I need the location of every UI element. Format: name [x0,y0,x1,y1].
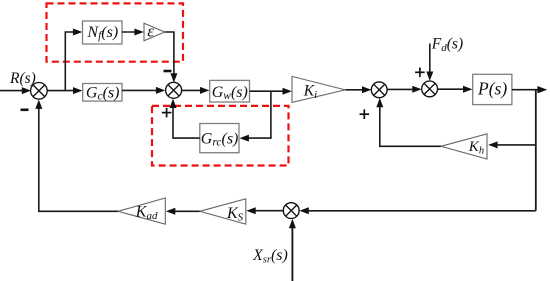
wire: Kh output left then up into J3 bottom [380,104,441,147]
summing junction J2 [166,82,182,98]
arrow into Nf [73,29,82,36]
block Gw(s) [210,80,250,102]
summing junction J3 [371,82,387,98]
wire: branch down to Grc input [245,91,271,138]
svg-text:Gc(s): Gc(s) [86,84,120,102]
plus sign below-left of J3 [360,109,370,119]
gain triangle Ki [292,76,345,102]
wire: P output to the right with output arrow [512,89,538,91]
minus sign above J2 [164,70,172,73]
block Grc(s) [200,124,239,153]
wire: Xsr(s) up into J5 bottom [289,219,296,281]
wire: branch up to Nf input [65,32,77,91]
summing junction J1 [31,83,48,100]
red dashed box around Nf/epsilon feedforward [47,3,184,61]
wire: J2 to Gw [182,87,210,94]
gain triangle KS (points left) [200,199,246,224]
arrow left into J5 [299,207,308,214]
svg-text:P(s): P(s) [477,78,507,98]
gain triangle Kh (points left) [441,134,487,159]
svg-text:R(s): R(s) [9,70,36,87]
arrow up into J3 [376,98,383,107]
gain triangle Kad (points left) [118,198,165,224]
output arrowhead [537,86,547,93]
red dashed box around Grc loop [152,106,289,166]
arrow into Ki [283,88,292,95]
wire: Gc to J2 [122,87,165,94]
gain triangle epsilon [144,22,165,41]
arrow left into Grc [240,135,249,142]
wire: KS to Kad [166,208,200,215]
wire: bottom feedback from right vertical into J5 [305,210,536,212]
wire: Nf to epsilon [122,29,144,36]
block P(s) [473,74,512,104]
wire: Ki to J3 [345,86,371,93]
wire: J3 to J4 [387,86,422,93]
wire: input R(s) into J1 [0,87,31,94]
wire: J5 to KS [246,207,283,214]
block Nf(s) [83,21,123,44]
svg-text:Nf(s): Nf(s) [86,24,118,42]
minus sign below J1 [21,109,29,112]
wire: right vertical to Kh input [494,144,536,146]
block Gc(s) [83,84,122,103]
wire: Gw to Ki with branch down [250,90,287,92]
wire: Fd(s) down into J4 [426,44,433,81]
summing junction J4 [422,81,438,97]
wire: epsilon tip right then down into J2 top [165,32,174,78]
wire: J4 to P [438,86,473,93]
plus sign above-left of J4 [415,68,425,78]
arrow into Gc [73,87,82,94]
plus sign below-left of J2 [162,108,172,118]
wire: Grc output up into J2 bottom [173,104,200,138]
wire: feedback branch down on right [535,90,537,211]
arrow down into J2 [170,73,177,82]
svg-text:Fd(s): Fd(s) [431,36,463,54]
summing junction J5 [283,203,299,219]
arrow up into J1 [35,100,42,109]
wire: J1 to Gc with branch node [47,90,77,92]
arrow up into J2 [170,99,177,108]
arrow left into Kh [488,141,497,148]
wire: Kad output left then up into J1 bottom [39,105,118,212]
svg-text:ε: ε [147,22,154,41]
